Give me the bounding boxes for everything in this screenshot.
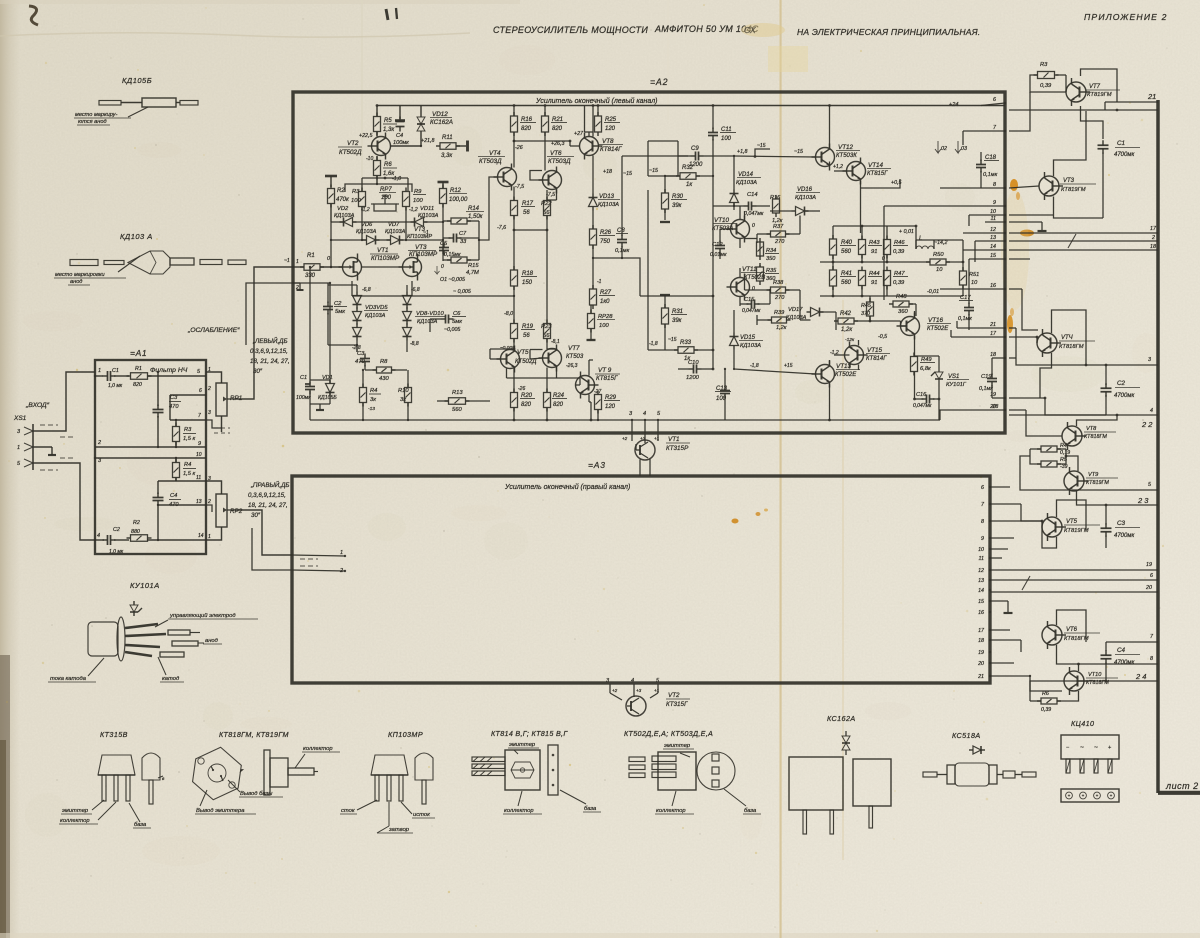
svg-text:VT12: VT12	[838, 144, 854, 151]
svg-text:+18: +18	[603, 169, 612, 175]
transistor VT8out КТ818ГМ	[1062, 422, 1116, 450]
capacitor C6 5мк	[430, 311, 466, 333]
wire RP2 to A3 input	[236, 510, 346, 574]
resistor R12 100	[438, 182, 469, 208]
svg-text:1,0 мк: 1,0 мк	[108, 383, 123, 389]
svg-text:0: 0	[752, 286, 755, 292]
resistor R20 820	[511, 369, 536, 421]
svg-text:1,2к: 1,2к	[776, 325, 787, 331]
svg-text:R23: R23	[541, 324, 552, 330]
svg-text:91: 91	[871, 249, 877, 255]
resistor R29 120	[595, 391, 621, 422]
potentiometer RP2	[206, 476, 243, 540]
wire А3 pin connections	[990, 487, 1158, 691]
wire VT5 VT7 VT9 stage	[490, 348, 593, 422]
svg-text:19: 19	[1146, 562, 1152, 568]
svg-text:-26: -26	[515, 145, 523, 151]
svg-text:КД103А: КД103А	[736, 180, 757, 186]
svg-text:18: 18	[978, 638, 984, 644]
svg-text:КТ815Г: КТ815Г	[596, 375, 618, 382]
svg-text:КУ101Г: КУ101Г	[946, 382, 967, 388]
svg-text:КТ315Г: КТ315Г	[666, 701, 688, 708]
svg-text:=А3: =А3	[588, 460, 606, 470]
svg-text:20: 20	[977, 661, 984, 667]
package КС518А	[923, 731, 1036, 786]
resistor R1 330	[293, 253, 342, 279]
label VT3	[407, 227, 432, 240]
svg-text:VT8: VT8	[1086, 426, 1097, 432]
svg-text:эмиттер: эмиттер	[664, 743, 691, 749]
svg-text:КТ315Р: КТ315Р	[666, 445, 689, 452]
svg-text:-7,5: -7,5	[515, 184, 524, 190]
svg-text:КД103А: КД103А	[385, 229, 406, 235]
svg-text:3: 3	[208, 410, 211, 416]
svg-text:КД103А: КД103А	[740, 343, 761, 349]
svg-text:30“: 30“	[251, 512, 261, 519]
transistor VT4out КТ818ГМ	[1037, 329, 1095, 357]
svg-text:-12к: -12к	[845, 337, 855, 343]
package КП103МР	[340, 730, 435, 833]
svg-text:18: 18	[1150, 244, 1156, 250]
svg-text:„ВХОД“: „ВХОД“	[25, 402, 50, 409]
top edge dashes	[386, 8, 397, 20]
svg-text:~15: ~15	[649, 168, 658, 174]
svg-text:С4: С4	[1117, 647, 1126, 654]
svg-text:~15: ~15	[668, 337, 677, 343]
svg-text:-1,2: -1,2	[409, 207, 418, 213]
svg-text:5мк: 5мк	[452, 319, 462, 325]
svg-text:КД103А: КД103А	[365, 313, 386, 319]
svg-text:39к: 39к	[672, 203, 683, 209]
svg-text:0: 0	[441, 264, 444, 270]
svg-text:КТ502Д: КТ502Д	[515, 359, 537, 365]
А2 bottom pins 3 4 5	[629, 411, 661, 433]
svg-text:VT9: VT9	[1088, 472, 1098, 478]
svg-text:R5: R5	[1060, 457, 1068, 463]
svg-text:Усилитель оконечный (правый: Усилитель оконечный (правый канал)	[504, 483, 630, 491]
svg-text:С7: С7	[459, 231, 467, 237]
transistor VT16 КТ502Е	[845, 313, 951, 344]
svg-text:3к: 3к	[400, 397, 406, 403]
block А1 filter	[95, 348, 206, 554]
svg-text:6: 6	[993, 97, 996, 103]
svg-text:КС162А: КС162А	[827, 714, 856, 723]
svg-text:-26: -26	[518, 386, 525, 392]
svg-text:R6: R6	[384, 162, 392, 168]
svg-text:R11: R11	[442, 135, 453, 141]
svg-text:база: база	[744, 808, 757, 814]
svg-text:R3: R3	[1040, 62, 1048, 68]
trimmer RP7 100	[371, 187, 399, 211]
svg-text:150: 150	[522, 280, 533, 286]
resistor R24 820	[544, 368, 568, 421]
svg-text:0,047мк: 0,047мк	[913, 403, 932, 409]
svg-text:лист 2: лист 2	[1165, 781, 1199, 791]
transistor VT7 КТ819ГМ	[1066, 78, 1120, 106]
capacitor C1 4700мк	[1098, 140, 1141, 158]
resistor R44 91	[859, 267, 883, 290]
transistor VT4 КТ503Д	[478, 132, 524, 191]
svg-text:R51: R51	[969, 272, 979, 278]
svg-text:100: 100	[721, 136, 732, 142]
svg-text:VD12: VD12	[432, 111, 448, 118]
connector XS1 ВХОД	[13, 372, 95, 540]
capacitor C5 0,15мк	[439, 241, 461, 258]
svg-text:коллектор: коллектор	[60, 818, 90, 824]
svg-text:КТ819ГМ: КТ819ГМ	[1061, 187, 1086, 193]
svg-text:R38: R38	[773, 280, 784, 286]
svg-text:R10: R10	[398, 388, 409, 394]
svg-text:VT15: VT15	[867, 347, 883, 354]
svg-text:VD7: VD7	[388, 222, 400, 228]
resistor R9 100	[403, 188, 427, 211]
svg-text:КД103А: КД103А	[417, 319, 438, 325]
svg-text:-1: -1	[597, 279, 602, 285]
svg-text:VT 9: VT 9	[598, 367, 612, 374]
svg-text:R15: R15	[468, 263, 479, 269]
capacitor C18 0,1мк	[976, 152, 999, 188]
svg-text:R6: R6	[1042, 691, 1049, 697]
capacitor C9 1200	[678, 146, 748, 168]
wire VT5out network	[1041, 500, 1108, 548]
svg-text:17: 17	[990, 331, 997, 337]
diode VD17 КД103А	[786, 307, 824, 321]
svg-text:R3: R3	[352, 189, 360, 195]
svg-text:VT3: VT3	[1063, 178, 1075, 184]
svg-text:VT7: VT7	[1089, 84, 1101, 90]
svg-text:03: 03	[961, 146, 967, 152]
svg-text:+1,8: +1,8	[737, 149, 748, 155]
svg-text:КЦ410: КЦ410	[1071, 719, 1094, 728]
svg-text:120: 120	[605, 126, 616, 132]
svg-text:КД103А: КД103А	[795, 195, 816, 201]
resistor R41 560	[830, 266, 857, 290]
svg-text:+2: +2	[612, 688, 618, 693]
svg-text:VTЧ: VTЧ	[1061, 335, 1074, 341]
capacitor C19 0,1мк	[979, 374, 997, 393]
resistor R37 270	[767, 224, 790, 245]
svg-text:0,3,6,9,12,15,: 0,3,6,9,12,15,	[248, 492, 286, 499]
svg-text:+3: +3	[640, 436, 646, 441]
svg-text:КТ503: КТ503	[566, 354, 584, 360]
supply arrows 02 03	[935, 102, 967, 153]
svg-text:3к: 3к	[370, 397, 376, 403]
wire lower-left rails	[293, 266, 660, 421]
svg-text:R5: R5	[384, 118, 392, 124]
transistor VT3 КП103МР	[399, 244, 439, 281]
capacitor C4 100мк	[393, 117, 409, 147]
svg-text:=А1: =А1	[130, 348, 147, 358]
resistor R6 1,6к	[374, 157, 402, 183]
svg-text:2: 2	[97, 440, 101, 446]
svg-text:~1: ~1	[423, 230, 429, 236]
svg-text:VT14: VT14	[868, 162, 884, 169]
svg-text:-1,8: -1,8	[750, 363, 759, 369]
transistor VT6 КТ503Д	[539, 132, 575, 198]
svg-text:КД103А: КД103А	[356, 229, 377, 235]
diodes VD3-VD5 КД103А	[353, 285, 389, 352]
svg-text:8: 8	[981, 519, 984, 525]
svg-text:Фильтр НЧ: Фильтр НЧ	[150, 367, 188, 374]
transistor VT10out КТ818ГМ	[1064, 667, 1118, 695]
wire VT6 VT10 out network	[1030, 610, 1158, 701]
svg-text:тока катода: тока катода	[50, 676, 87, 682]
resistor R22 56	[541, 190, 552, 230]
wire output LR network	[820, 225, 964, 298]
svg-text:0,047мк: 0,047мк	[744, 211, 764, 217]
block А3 border	[292, 460, 990, 683]
package КТ502 КТ503	[624, 729, 761, 814]
svg-text:VD11: VD11	[420, 206, 434, 212]
svg-text:сток: сток	[341, 808, 355, 814]
resistor R3 100	[351, 188, 366, 211]
svg-text:R8: R8	[380, 359, 388, 365]
svg-text:С1: С1	[300, 375, 307, 381]
svg-text:5: 5	[1148, 482, 1151, 488]
svg-text:5мк: 5мк	[335, 309, 345, 315]
zener VD12 КС162А	[417, 111, 453, 136]
svg-text:6: 6	[199, 388, 202, 394]
trimmer RP28 100	[587, 305, 616, 340]
svg-text:12: 12	[978, 568, 984, 574]
svg-text:КП103МР: КП103МР	[409, 251, 438, 258]
svg-text:21: 21	[1147, 92, 1156, 101]
resistor R3 0,39	[1034, 62, 1059, 89]
svg-text:4700мк: 4700мк	[1114, 152, 1135, 158]
svg-text:~15: ~15	[794, 149, 803, 155]
svg-text:база: база	[584, 806, 597, 812]
svg-text:11: 11	[979, 556, 985, 562]
capacitor C4 4700мк	[1101, 647, 1141, 666]
svg-text:КС162А: КС162А	[430, 119, 453, 126]
svg-text:=А2: =А2	[650, 77, 668, 87]
resistor R26 750	[590, 211, 616, 259]
svg-text:+22,5: +22,5	[359, 133, 372, 139]
potentiometer RP1	[206, 367, 242, 433]
svg-text:коллектор: коллектор	[303, 746, 333, 752]
svg-text:+1,2: +1,2	[833, 164, 843, 170]
capacitor C3 4700мк	[1101, 520, 1141, 539]
svg-text:14: 14	[198, 533, 204, 539]
svg-text:-26,3: -26,3	[566, 363, 578, 369]
svg-text:10: 10	[936, 267, 943, 273]
resistor R4 3к	[360, 369, 382, 420]
svg-text:17: 17	[1150, 226, 1157, 232]
svg-text:9: 9	[981, 536, 984, 542]
resistor R27 1к0	[590, 258, 616, 309]
svg-text:СТЕРЕОУСИЛИТЕЛЬ МОЩНОСТИ: СТЕРЕОУСИЛИТЕЛЬ МОЩНОСТИ	[493, 25, 648, 35]
svg-text:КД103А: КД103А	[418, 213, 439, 219]
diodes VD6 VD7	[356, 222, 406, 245]
svg-text:+2: +2	[622, 436, 628, 441]
annotation Приложение 2	[1084, 12, 1168, 22]
svg-text:С1: С1	[1117, 140, 1125, 147]
filter А1 upper half (C1 R1 C3 R3)	[94, 366, 206, 448]
svg-text:4700мк: 4700мк	[1114, 660, 1135, 666]
capacitor C2 4700мк	[1101, 380, 1141, 399]
svg-text:8: 8	[993, 182, 996, 188]
svg-text:56: 56	[523, 210, 530, 216]
filter А1 lower half (C2 R2 C4 R4)	[94, 452, 206, 555]
svg-text:11: 11	[196, 475, 201, 481]
svg-text:R3: R3	[184, 427, 192, 433]
svg-text:1: 1	[98, 368, 101, 374]
svg-text:9: 9	[198, 441, 201, 447]
svg-text:КС518А: КС518А	[952, 731, 981, 740]
transistor VT13 КТ502Е	[812, 350, 861, 388]
wire bus 17 2 18	[1009, 215, 1158, 250]
diode VD2 КД103А	[334, 206, 357, 227]
svg-text:коллектор: коллектор	[504, 808, 534, 814]
wire VT8 base	[545, 132, 593, 146]
svg-text:С14: С14	[747, 192, 758, 198]
svg-text:91: 91	[871, 280, 877, 286]
svg-text:10: 10	[978, 547, 984, 553]
А3 right edge pin numbers	[977, 485, 991, 680]
svg-text:2 4: 2 4	[1135, 672, 1146, 681]
svg-text:R50: R50	[933, 252, 944, 258]
svg-text:КТ315В: КТ315В	[100, 730, 128, 739]
resistor R4 0,39	[1037, 443, 1070, 456]
svg-text:~: ~	[1080, 744, 1084, 751]
resistor R16 820	[511, 106, 537, 137]
wire mid vertical rail x713	[640, 295, 714, 371]
А2 input pins 1 2	[284, 258, 304, 291]
resistor R47 0,39	[884, 267, 909, 290]
resistor R51 10	[960, 267, 980, 289]
svg-text:С1: С1	[112, 368, 119, 374]
svg-text:+21,8: +21,8	[421, 138, 434, 144]
wire VT2 bias	[345, 106, 422, 193]
svg-text:19: 19	[978, 650, 984, 656]
svg-text:R37: R37	[773, 224, 784, 230]
wire VT8 VT9 out network	[1020, 414, 1158, 505]
svg-text:~15: ~15	[623, 171, 632, 177]
wire driver stage	[720, 206, 836, 374]
wire VT13 VT15	[830, 340, 859, 420]
svg-text:эмиттер: эмиттер	[62, 808, 89, 814]
svg-text:VT6: VT6	[550, 150, 562, 157]
svg-text:КТ503Д: КТ503Д	[479, 158, 502, 165]
resistor R14 1,50к	[447, 206, 484, 224]
svg-text:VT11: VT11	[742, 266, 757, 273]
svg-text:6,8к: 6,8к	[920, 366, 931, 372]
svg-text:6: 6	[981, 485, 984, 491]
svg-text:4700мк: 4700мк	[1114, 533, 1135, 539]
svg-text:КТ818ГМ: КТ818ГМ	[1084, 434, 1107, 440]
svg-text:0,39: 0,39	[1041, 707, 1051, 713]
svg-text:1,3к: 1,3к	[383, 127, 395, 133]
capacitor C10 1200	[678, 360, 793, 381]
svg-text:02: 02	[941, 146, 947, 152]
thyristor VS1 КУ101Г	[931, 367, 969, 388]
svg-text:2: 2	[207, 499, 211, 505]
svg-text:0,1мк: 0,1мк	[958, 316, 972, 322]
svg-text:„ЛЕВЫЙ,ДБ: „ЛЕВЫЙ,ДБ	[252, 337, 288, 345]
diode VD16 КД103А	[770, 187, 820, 216]
wire bottom rail	[513, 410, 940, 421]
svg-text:R32: R32	[682, 165, 694, 171]
resistor R34 350	[757, 238, 780, 262]
svg-text:1,5 к: 1,5 к	[183, 436, 195, 442]
resistor R18 150	[511, 230, 538, 297]
label правый дБ	[248, 481, 289, 519]
svg-text:350: 350	[766, 256, 776, 262]
svg-text:-1,8: -1,8	[649, 341, 658, 347]
node label 0.005	[435, 264, 465, 283]
svg-text:~ 0,005: ~ 0,005	[453, 289, 471, 295]
capacitor C17 0,1мк	[958, 295, 974, 322]
svg-text:R2: R2	[337, 188, 345, 194]
package КТ814 КТ815	[472, 729, 601, 814]
svg-text:13: 13	[196, 499, 202, 505]
svg-text:360: 360	[898, 309, 908, 315]
svg-text:~: ~	[1094, 744, 1098, 751]
transistor VT9out КТ819ГМ	[1064, 467, 1118, 495]
transistor VT15 КТ814Г	[845, 342, 891, 369]
svg-text:С3: С3	[357, 351, 365, 357]
svg-text:100: 100	[413, 198, 423, 204]
svg-text:19: 19	[990, 392, 996, 398]
svg-text:VD17: VD17	[788, 307, 803, 313]
label левый дБ	[250, 337, 290, 375]
resistor R43 91	[859, 236, 883, 259]
svg-text:0,39: 0,39	[893, 249, 905, 255]
svg-text:ПРИЛОЖЕНИЕ 2: ПРИЛОЖЕНИЕ 2	[1084, 12, 1168, 22]
wire R3 R9 tops	[362, 177, 408, 191]
svg-text:~15: ~15	[757, 143, 766, 149]
svg-text:место маркировки: место маркировки	[55, 272, 105, 278]
transistor VT1 КТ315Г	[622, 434, 690, 477]
svg-text:820: 820	[553, 402, 564, 408]
svg-text:R4: R4	[184, 462, 191, 468]
svg-text:R45: R45	[861, 303, 872, 309]
svg-text:R39: R39	[774, 310, 784, 316]
svg-text:56: 56	[543, 333, 550, 339]
svg-text:VT7: VT7	[568, 345, 580, 352]
svg-text:1: 1	[208, 534, 211, 540]
resistor R33 1к	[648, 337, 713, 362]
diode VD14 КД103А	[730, 155, 762, 207]
wire VT16 VS1 area	[854, 296, 940, 420]
svg-text:0,39: 0,39	[893, 280, 905, 286]
wire А2 edge connections	[884, 103, 1005, 410]
svg-text:КТ814Г: КТ814Г	[600, 146, 622, 153]
svg-text:КД103А: КД103А	[334, 213, 355, 219]
svg-text:470: 470	[355, 359, 365, 365]
resistor R8 430	[365, 359, 407, 382]
thyristor package КУ101А	[48, 581, 258, 682]
svg-text:4: 4	[1150, 408, 1153, 414]
А2 right edge pin numbers	[989, 97, 1006, 411]
transistor VT5 КТ502Д	[497, 345, 538, 373]
svg-text:-8,8: -8,8	[410, 341, 419, 347]
svg-text:КТ815Г: КТ815Г	[867, 171, 888, 177]
capacitor C2 5мк	[323, 283, 347, 345]
wire mid pins	[1009, 259, 1158, 365]
svg-text:КД105Б: КД105Б	[122, 76, 152, 85]
svg-text:-2,8: -2,8	[352, 345, 361, 351]
svg-text:КТ818ГМ, КТ819ГМ: КТ818ГМ, КТ819ГМ	[219, 730, 289, 739]
svg-text:820: 820	[521, 402, 532, 408]
svg-text:-0,01: -0,01	[927, 289, 939, 295]
svg-text:Вывод базы: Вывод базы	[240, 791, 273, 797]
svg-text:0,39: 0,39	[1040, 83, 1052, 89]
svg-text:-8,0: -8,0	[504, 311, 513, 317]
capacitor C13 100	[715, 368, 731, 420]
capacitor C16 0,047мк	[913, 392, 935, 409]
svg-text:100мк: 100мк	[296, 395, 311, 401]
